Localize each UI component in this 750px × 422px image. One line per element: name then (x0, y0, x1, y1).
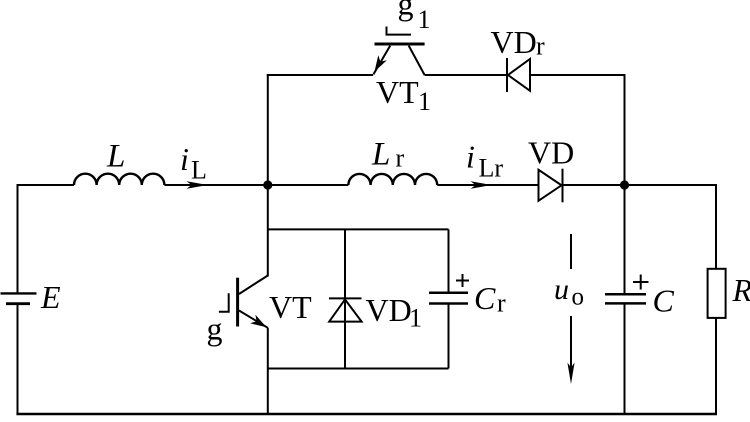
wire main line VD to node B (563, 184, 625, 186)
wire Cr branch upper vertical (448, 229, 450, 292)
svg-text:R: R (732, 272, 750, 308)
wire main line node A to Lr (268, 184, 349, 186)
svg-text:r: r (396, 144, 405, 173)
capacitor Cr plus sign (456, 274, 469, 287)
svg-text:C: C (653, 283, 675, 319)
wire bottom rail (16, 413, 717, 416)
wire left edge lower (17, 304, 19, 415)
wire Cr branch lower vertical (448, 304, 450, 369)
svg-text:g: g (398, 0, 414, 22)
svg-text:g: g (207, 311, 223, 347)
svg-text:1: 1 (418, 5, 431, 34)
svg-text:L: L (106, 139, 125, 175)
transistor VT emitter arrow (250, 315, 266, 328)
svg-text:L: L (371, 137, 390, 173)
capacitor C top plate (605, 293, 646, 296)
transistor VT1 gate bar g1 (387, 27, 412, 35)
transistor VT gate bar g (219, 293, 229, 312)
wire right edge lower (715, 318, 717, 415)
diode VDr cathode bar (506, 58, 508, 92)
svg-text:1: 1 (409, 304, 422, 333)
inductor L (74, 174, 164, 185)
wire VD1 branch vertical (344, 229, 346, 368)
diode VD1 triangle (329, 299, 361, 321)
transistor VT1 body bar (375, 43, 425, 46)
transistor VT1 emitter leg (374, 46, 391, 75)
svg-text:i: i (180, 141, 189, 177)
diode VD cathode bar (562, 169, 564, 203)
diode VD triangle (539, 170, 562, 201)
current arrow iLr head (471, 181, 492, 189)
wire left edge upper (17, 184, 19, 293)
capacitor C bottom plate (605, 302, 646, 305)
svg-text:L: L (191, 155, 207, 184)
wire main line left segment (17, 184, 75, 186)
svg-text:1: 1 (418, 87, 431, 116)
capacitor Cr top plate (429, 291, 468, 294)
transistor VT body bar (236, 278, 239, 327)
svg-text:r: r (536, 32, 545, 61)
wire snubber box top edge (268, 228, 449, 230)
svg-text:i: i (466, 139, 475, 175)
node B junction dot (620, 180, 629, 189)
wire node B column lower (624, 303, 626, 414)
capacitor C plus sign (633, 275, 649, 290)
wire top branch VDr to corner (530, 74, 626, 76)
svg-text:u: u (554, 273, 569, 306)
transistor VT collector leg (239, 276, 268, 295)
svg-text:r: r (497, 288, 506, 317)
svg-text:Lr: Lr (479, 154, 504, 183)
svg-text:VD: VD (528, 135, 574, 171)
battery E positive long plate (1, 292, 37, 294)
wire node B column upper (624, 185, 626, 294)
wire center column VT down to bottom rail (267, 328, 269, 414)
node A junction dot (263, 180, 272, 189)
current arrow iL head (187, 181, 208, 189)
wire top branch horizontal to VT1 (267, 74, 373, 76)
battery E negative short plate (6, 302, 30, 305)
svg-text:VT: VT (269, 289, 312, 325)
wire top branch VT1 to VDr (425, 74, 507, 76)
voltage uo arrow upper segment (570, 234, 572, 269)
svg-text:VD: VD (491, 24, 537, 60)
svg-text:C: C (474, 280, 496, 316)
svg-text:E: E (40, 279, 61, 315)
transistor VT1 collector leg (409, 46, 425, 75)
svg-text:o: o (572, 284, 585, 311)
wire right edge upper (715, 184, 717, 269)
wire top branch right vertical (624, 74, 626, 185)
transistor VT1 emitter arrow (375, 55, 387, 71)
svg-text:VT: VT (376, 74, 419, 110)
voltage uo arrowhead (567, 363, 574, 385)
wire main line node B to right edge (625, 184, 718, 186)
diode VD1 cathode bar (329, 297, 362, 299)
inductor Lr (348, 174, 437, 185)
wire main line with current arrow iL (164, 184, 267, 186)
wire center column node A down to VT (267, 185, 269, 277)
resistor R body (708, 269, 726, 318)
svg-text:VD: VD (366, 292, 412, 328)
wire snubber box bottom edge (268, 368, 449, 370)
capacitor Cr bottom plate (429, 302, 468, 305)
voltage uo arrow lower segment with head (570, 316, 572, 376)
transistor VT emitter leg (239, 311, 268, 328)
diode VDr triangle (508, 59, 530, 91)
wire main line with current arrow iLr (437, 184, 538, 186)
wire top branch left vertical (267, 74, 269, 185)
